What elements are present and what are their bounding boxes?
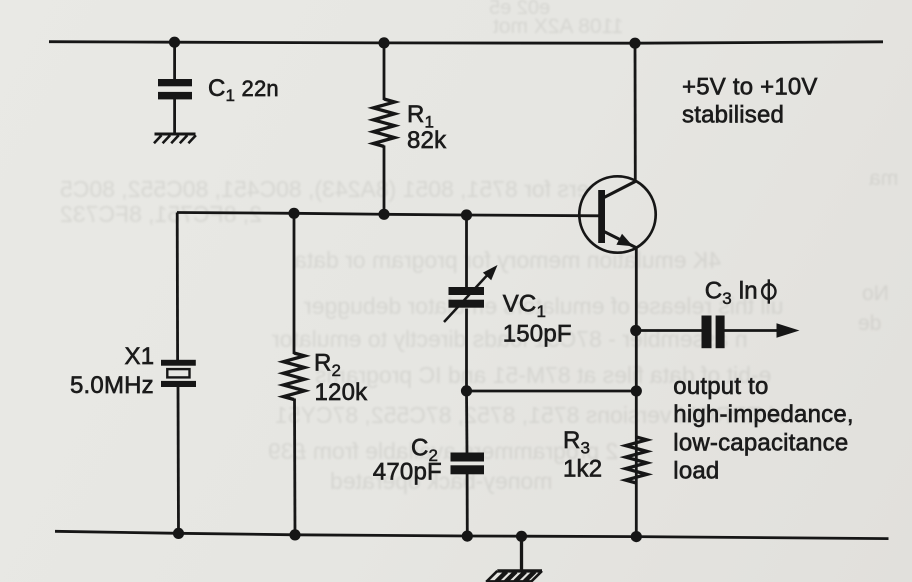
wire: C3 to output arrow <box>725 329 781 332</box>
capacitor C1 <box>158 79 192 99</box>
node J7 <box>461 385 472 396</box>
svg-text:5.0MHz: 5.0MHz <box>70 372 154 399</box>
svg-text:ers for 8751, 8051 (8A243), 80: ers for 8751, 8051 (8A243), 80C451, 80C5… <box>60 176 589 202</box>
wire: R2 top lead <box>293 213 296 354</box>
wire: base rail from X1 column to Q1 base <box>177 213 601 216</box>
svg-text:R2: R2 <box>314 350 341 381</box>
svg-text:C1 22n: C1 22n <box>208 75 279 105</box>
node J11 <box>289 529 300 540</box>
resistor R1 <box>373 99 394 147</box>
wire: VC1 top lead <box>465 215 468 288</box>
wire: VC1 to node <box>465 309 468 392</box>
wire: X1 top lead <box>176 213 179 361</box>
node J5 <box>378 209 389 220</box>
node J10 <box>173 528 184 539</box>
wire: R1 bottom lead <box>383 146 386 215</box>
ground (below C1) <box>154 134 196 143</box>
ground (bottom rail) <box>486 571 542 582</box>
wire: C1 top lead <box>173 42 176 80</box>
svg-text:stabilised: stabilised <box>682 101 784 128</box>
svg-text:No: No <box>862 282 889 305</box>
bleed-through text from reverse page side <box>60 0 898 494</box>
svg-text:150pF: 150pF <box>503 320 572 347</box>
capacitor C2 <box>451 453 485 475</box>
svg-text:82k: 82k <box>407 127 447 154</box>
wire: top +V supply rail <box>49 42 883 44</box>
wire: VC1/C2 node to emitter column <box>467 390 637 393</box>
svg-text:low-capacitance: low-capacitance <box>673 430 848 457</box>
wire: C2 bottom lead <box>466 474 469 537</box>
svg-text:ma: ma <box>869 167 898 190</box>
svg-text:1108 A2X mot: 1108 A2X mot <box>493 15 624 38</box>
wire: R1 top lead <box>383 43 386 100</box>
output arrow <box>777 323 800 337</box>
wire: bottom 0V rail <box>55 531 889 538</box>
label: phi (slashed-zero) of C3 value <box>762 279 775 303</box>
svg-text:high-impedance,: high-impedance, <box>673 401 853 428</box>
node J9 <box>631 385 642 396</box>
node J1 <box>169 37 180 48</box>
resistor R2 <box>283 353 304 400</box>
svg-text:de: de <box>858 312 881 335</box>
crystal X1 <box>161 360 196 387</box>
node J4 <box>288 208 299 219</box>
svg-text:+5V to +10V: +5V to +10V <box>682 74 818 101</box>
node J12 <box>462 531 473 542</box>
wire: emitter column <box>635 248 638 537</box>
wire: emitter node to C3 <box>636 329 702 332</box>
wire: R2 bottom lead <box>293 399 296 535</box>
resistor R3 <box>626 437 647 483</box>
svg-text:120k: 120k <box>315 379 369 406</box>
svg-text:1k2: 1k2 <box>563 455 602 482</box>
svg-text:C3 ln: C3 ln <box>705 277 758 308</box>
svg-text:X1: X1 <box>125 343 155 370</box>
node J14 <box>631 531 642 542</box>
variable capacitor VC1 <box>444 265 498 322</box>
node J2 <box>378 37 389 48</box>
wire: ground stub on 0V rail <box>520 536 523 571</box>
wire: node to C2 <box>465 391 468 454</box>
node J13 <box>516 531 527 542</box>
wire: collector lead from top rail <box>634 43 637 181</box>
svg-text:470pF: 470pF <box>373 459 442 486</box>
transistor Q1 (NPN) <box>579 176 655 252</box>
svg-text:R3: R3 <box>563 427 590 458</box>
capacitor C3 <box>702 316 725 349</box>
wire: C1 bottom lead <box>173 99 176 134</box>
wire: X1 bottom lead <box>177 387 180 534</box>
node J6 <box>461 209 472 220</box>
svg-text:load: load <box>673 458 719 485</box>
node J3 <box>629 38 640 49</box>
node J8 <box>630 325 641 336</box>
svg-text:output to: output to <box>673 373 768 400</box>
svg-text:4K emulation memory for progra: 4K emulation memory for program or data <box>294 247 721 273</box>
